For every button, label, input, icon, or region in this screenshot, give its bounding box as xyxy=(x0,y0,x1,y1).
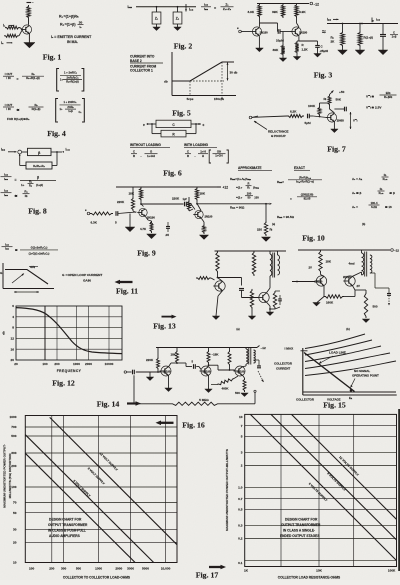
svg-text:500: 500 xyxy=(235,391,240,395)
svg-text:39K: 39K xyxy=(273,48,279,52)
transistor Q2 2N190 Fig.3 xyxy=(292,27,301,36)
svg-text:I MAX: I MAX xyxy=(285,347,295,351)
Fig.3 input terminal xyxy=(239,30,242,33)
Fig.5 response curve xyxy=(172,62,234,81)
svg-text:Fig. 14: Fig. 14 xyxy=(97,400,120,409)
resistor 160K Fig.13b xyxy=(324,295,344,298)
transistor Q 2N68 Fig.7 xyxy=(327,113,336,122)
wire Fig.13a Q2 collector xyxy=(267,288,271,293)
svg-text:IN CLASS A SINGLE-: IN CLASS A SINGLE- xyxy=(283,529,315,533)
Fig.7 VRL arrow xyxy=(350,112,352,129)
wire Fig.9 interstage xyxy=(141,203,184,205)
ground Fig.14 Q2 xyxy=(205,389,212,393)
Fig.15 characteristic curve 2 xyxy=(305,340,372,355)
Fig.15 x axis xyxy=(303,394,397,396)
Fig.3 supply terminal -12 xyxy=(310,2,313,5)
Fig.15 characteristic curve 1 xyxy=(305,334,365,349)
capacitor coupling Fig.13a xyxy=(239,288,244,290)
svg-text:500: 500 xyxy=(11,434,16,438)
ground Fig.3 Q1 xyxy=(256,48,264,52)
resistor 3.9K (2) Fig.3 xyxy=(295,4,298,19)
svg-text:c: c xyxy=(203,123,205,127)
transistor Q2 Fig.13a xyxy=(259,292,269,302)
svg-text:160K: 160K xyxy=(326,301,334,305)
ground Fig.3 39K xyxy=(282,56,284,58)
capacitor input Fig.14 xyxy=(127,371,132,373)
wire Fig.13b Q1 emitter xyxy=(323,286,325,297)
resistor 220K (2) Fig.9 xyxy=(188,197,190,200)
svg-text:+12: +12 xyxy=(223,186,229,190)
ground Fig.9 emitter1 xyxy=(147,234,157,239)
Fig.17 diagonal 6 volt xyxy=(250,414,396,560)
svg-text:30: 30 xyxy=(79,20,83,24)
svg-text:1.2K: 1.2K xyxy=(302,48,309,52)
wire Fig.3 coupling xyxy=(260,22,278,24)
svg-text:18K: 18K xyxy=(200,192,206,196)
transformer Fig.13a xyxy=(270,254,272,276)
wire Fig.3 Q2 collector xyxy=(296,18,298,23)
Fig.15 characteristic curve 5 xyxy=(305,361,396,376)
capacitor input Fig.9 xyxy=(115,211,117,216)
svg-text:5μfd: 5μfd xyxy=(305,121,311,125)
svg-text:H: H xyxy=(202,154,204,158)
Fig.5 db level dashed xyxy=(172,80,224,82)
svg-text:50K: 50K xyxy=(336,98,342,102)
transistor Q1 2N190 Fig.3 xyxy=(252,27,261,36)
svg-text:2000: 2000 xyxy=(85,362,92,366)
svg-text:Fig. 10: Fig. 10 xyxy=(302,234,325,243)
svg-text:Iₘₙ: Iₘₙ xyxy=(1,147,6,151)
svg-text:Fig. 1: Fig. 1 xyxy=(43,53,62,62)
svg-text:DESIGN CHART FOR: DESIGN CHART FOR xyxy=(285,518,318,522)
Fig.6 block R xyxy=(161,130,186,137)
svg-text:β: β xyxy=(37,176,39,180)
wire Fig.1 emitter xyxy=(28,34,30,43)
Fig.11 freq arrow xyxy=(14,291,39,293)
wire Fig.9 supply rail xyxy=(116,186,217,188)
svg-text:≪ β: ≪ β xyxy=(389,191,395,195)
svg-text:Rₘₙ = 90Ω: Rₘₙ = 90Ω xyxy=(230,206,245,210)
svg-text:GAIN: GAIN xyxy=(83,278,92,282)
svg-text:(R+Rₗ)hₘₚ: (R+Rₗ)hₘₚ xyxy=(299,176,312,180)
wire Fig.2 top rail xyxy=(136,6,196,8)
svg-text:Fig. 16: Fig. 16 xyxy=(182,421,205,430)
svg-text:92.05: 92.05 xyxy=(304,197,311,201)
wire Fig.1 base join xyxy=(20,28,22,30)
resistor bias1 Fig.13a xyxy=(216,251,219,273)
svg-text:2N190: 2N190 xyxy=(237,370,245,374)
svg-text:2N190: 2N190 xyxy=(163,370,171,374)
svg-text:IN CLASS B PUSH-PULL: IN CLASS B PUSH-PULL xyxy=(48,529,86,533)
svg-text:300: 300 xyxy=(11,451,16,455)
svg-text:(b): (b) xyxy=(362,222,365,226)
svg-text:R: R xyxy=(248,182,250,186)
resistor 4.7K Fig.9 xyxy=(150,221,153,233)
svg-text:10,000: 10,000 xyxy=(161,566,171,570)
svg-text:1 + 2πRC₁: 1 + 2πRC₁ xyxy=(64,71,78,75)
svg-text:Rₘₙ=: Rₘₙ= xyxy=(277,180,284,184)
svg-text:6.3K: 6.3K xyxy=(91,221,98,225)
svg-text:MAXIMUM UNDISTORTED POWER OUTP: MAXIMUM UNDISTORTED POWER OUTPUT- xyxy=(3,444,7,508)
wire Fig.3 eq top xyxy=(327,23,398,25)
svg-text:+50: +50 xyxy=(339,90,345,94)
capacitor 10ufd Fig.3 xyxy=(277,29,279,34)
wire Fig.7 output xyxy=(334,108,344,110)
wire Fig.14 supply rail xyxy=(156,347,257,349)
svg-text:(150)(130): (150)(130) xyxy=(301,193,314,197)
resistor 500 Fig.14 xyxy=(243,375,245,378)
wire Fig.14 base1 xyxy=(136,371,161,373)
ground Fig.7 xyxy=(331,129,338,133)
svg-text:G(1+2πR₂C₂): G(1+2πR₂C₂) xyxy=(31,245,48,249)
svg-text:100·4: 100·4 xyxy=(371,201,378,205)
ground Fig.14 Q1 xyxy=(165,388,172,392)
wire Fig.9 Q1 emitter xyxy=(145,216,148,220)
wire Fig.1 collector xyxy=(28,19,30,25)
svg-text:COLLECTOR TO COLLECTOR LOAD-OH: COLLECTOR TO COLLECTOR LOAD-OHMS xyxy=(63,575,131,579)
svg-text:db: db xyxy=(164,79,168,83)
node Fig.3 eq a xyxy=(342,23,344,25)
transistor Q2 2N190 Fig.13b xyxy=(345,276,355,286)
svg-text:1 + 2πRC₁: 1 + 2πRC₁ xyxy=(63,100,77,104)
svg-text:500: 500 xyxy=(76,566,81,570)
svg-text:MILLIWATTS (5%) DISTORTION: MILLIWATTS (5%) DISTORTION xyxy=(8,454,12,499)
Fig.11 pointer arrow xyxy=(120,281,133,283)
svg-text:e: e xyxy=(143,123,145,127)
wire Fig.13b supply rail xyxy=(298,249,390,251)
svg-text:1+β: 1+β xyxy=(68,109,73,113)
svg-text:Iₘₙ: Iₘₙ xyxy=(327,18,332,22)
Fig.2 impedance Z1 xyxy=(156,7,158,12)
svg-text:Aₑ ≅ β: Aₑ ≅ β xyxy=(352,191,362,195)
Fig.7 pickup terminal xyxy=(249,116,252,119)
node Fig.3 eq b xyxy=(361,23,363,25)
ground Fig.13a emitter xyxy=(269,309,271,312)
svg-text:–: – xyxy=(32,1,34,5)
svg-text:FOR R(1+β)≫Rₐ: FOR R(1+β)≫Rₐ xyxy=(7,117,30,121)
Fig.16 diagonal 6 volt xyxy=(25,453,135,562)
svg-text:220: 220 xyxy=(257,228,262,232)
Fig.16 chart frame and grid xyxy=(25,416,177,563)
svg-text:1+H: 1+H xyxy=(200,150,206,154)
resistor 500 Fig.13b xyxy=(365,290,367,292)
svg-text:2N190: 2N190 xyxy=(299,31,308,35)
svg-text:3000: 3000 xyxy=(127,566,134,570)
wire Fig.9 base1 xyxy=(118,212,137,214)
svg-text:=: = xyxy=(290,197,292,201)
svg-text:Iₒₓₜ: Iₒₓₜ xyxy=(376,18,380,22)
Fig.2 impedance Z2 xyxy=(177,7,179,12)
svg-text:1+: 1+ xyxy=(21,183,25,187)
ground Fig.13a base2 xyxy=(251,309,253,316)
resistor 220 RL Fig.9 xyxy=(264,221,267,236)
svg-text:MAXIMUM UNDISTORTED POWER O: MAXIMUM UNDISTORTED POWER OUTPUT-MILLIWA… xyxy=(225,449,229,531)
Fig.15 characteristic curve 4 xyxy=(305,353,390,369)
wire Fig.13a supply rail xyxy=(215,250,287,252)
svg-text:1000: 1000 xyxy=(95,566,102,570)
svg-text:220K: 220K xyxy=(117,200,125,204)
wire Fig.14 Q1 emitter xyxy=(168,375,170,388)
Fig.16 diagonal 12 volt xyxy=(50,417,177,544)
ground Fig.13b 500 xyxy=(362,319,369,323)
transistor Q1 2N190 Fig.9 xyxy=(139,208,147,216)
svg-text:R+βRₗ: R+βRₗ xyxy=(384,95,393,99)
ground Fig.9 load xyxy=(261,237,270,242)
wire Fig.13b Q1 collector xyxy=(320,273,322,275)
Fig.1 input resistor r1 xyxy=(5,26,20,29)
transistor Q1 2N190 Fig.13b xyxy=(316,276,326,286)
svg-text:Fig. 2: Fig. 2 xyxy=(174,42,193,51)
svg-text:EXACT: EXACT xyxy=(294,166,305,170)
ground Fig.3eq C xyxy=(382,36,384,50)
wire Fig.9 output xyxy=(197,203,269,205)
svg-text:OUTPUT TRANSFORMER: OUTPUT TRANSFORMER xyxy=(281,523,321,527)
svg-text:0.7: 0.7 xyxy=(238,497,243,501)
svg-text:3: 3 xyxy=(241,451,243,455)
resistor 18K (2) Fig.9 xyxy=(195,187,198,201)
svg-text:Z₁+Z₂: Z₁+Z₂ xyxy=(223,7,232,11)
Fig.9 input terminal xyxy=(87,212,90,215)
wire Fig.9 Q1 collector xyxy=(140,201,142,204)
Fig.8 block beta xyxy=(28,148,52,155)
wire Fig.13b input xyxy=(292,281,315,283)
svg-text:1μf: 1μf xyxy=(183,197,187,201)
transistor Q1 2N190 Fig.14 xyxy=(161,366,171,376)
svg-text:2N68: 2N68 xyxy=(337,119,344,123)
svg-text:FREQUENCY: FREQUENCY xyxy=(57,369,82,373)
svg-text:4: 4 xyxy=(12,315,14,319)
svg-text:100: 100 xyxy=(247,192,252,196)
svg-text:150cps: 150cps xyxy=(214,97,225,101)
svg-text:200: 200 xyxy=(49,566,54,570)
transformer 4md Fig.13b xyxy=(362,253,364,275)
svg-text:R₂ =(1+β): R₂ =(1+β) xyxy=(60,23,76,27)
wire Fig.3 output node xyxy=(299,40,318,42)
svg-text:GRₗ: GRₗ xyxy=(30,265,36,269)
resistor emitter2 Fig.9 xyxy=(203,224,206,234)
Fig.7 supply +50 xyxy=(330,91,334,95)
svg-text:2: 2 xyxy=(241,464,243,468)
svg-text:50: 50 xyxy=(13,511,17,515)
wire Fig.6 left branch xyxy=(151,124,153,134)
Fig.13b supply terminal xyxy=(391,249,394,252)
svg-text:8: 8 xyxy=(12,326,14,330)
wire Fig.14 Q1 collector xyxy=(169,363,172,367)
svg-text:2N190: 2N190 xyxy=(147,215,155,219)
svg-text:200: 200 xyxy=(54,362,59,366)
svg-text:10: 10 xyxy=(13,561,17,565)
svg-text:–12: –12 xyxy=(314,2,320,6)
Fig.15 load line xyxy=(304,353,355,392)
ground Fig.9 bias xyxy=(129,214,131,228)
svg-text:hₒₚ+Rₗ+R(1–α): hₒₚ+Rₗ+R(1–α) xyxy=(296,180,314,184)
svg-text:2N190: 2N190 xyxy=(343,275,351,279)
svg-text:AUDIO AMPLIFIERS: AUDIO AMPLIFIERS xyxy=(49,534,81,538)
svg-text:2V: 2V xyxy=(309,266,313,270)
svg-text:2N190: 2N190 xyxy=(203,370,211,374)
svg-text:(b): (b) xyxy=(346,327,350,331)
transistor Q3 2N190 Fig.14 xyxy=(235,366,245,376)
resistor 220K (1) Fig.9 xyxy=(132,187,134,197)
svg-text:100: 100 xyxy=(11,485,16,489)
transistor Q1 Fig.1 xyxy=(22,25,31,34)
wire Fig.9 base2 xyxy=(187,203,191,205)
wire Fig.7 base xyxy=(309,115,313,117)
wire Fig.3 Q2 base xyxy=(280,31,291,33)
resistor input Fig.13a xyxy=(196,277,211,280)
svg-text:C: C xyxy=(393,31,395,35)
svg-text:Fig. 17: Fig. 17 xyxy=(196,571,219,580)
transformer output Fig.14 xyxy=(245,348,247,350)
svg-text:Rₐ+R(1+β): Rₐ+R(1+β) xyxy=(66,79,79,83)
svg-text:.25μfd: .25μfd xyxy=(320,49,329,53)
resistor 460K Fig.14 xyxy=(217,379,234,385)
resistor 100K Fig.7 xyxy=(318,106,321,116)
wire Fig.13a Q2 emitter xyxy=(267,302,271,306)
svg-text:CURRENT: CURRENT xyxy=(276,366,290,370)
resistor base2 Fig.13a xyxy=(251,288,253,290)
svg-text:COLLECTOR: COLLECTOR xyxy=(296,398,315,402)
svg-text:100K: 100K xyxy=(388,569,396,573)
svg-text:)hₘₚ: )hₘₚ xyxy=(253,186,260,190)
resistor bias3 Fig.14 xyxy=(229,348,231,351)
Fig.12 gridlines xyxy=(16,316,122,318)
svg-text:NO SIGNAL: NO SIGNAL xyxy=(354,369,370,373)
svg-text:Fig. 8: Fig. 8 xyxy=(28,207,47,216)
resistor R 1.2K Fig.3 xyxy=(295,41,298,54)
svg-text:Fig. 9: Fig. 9 xyxy=(137,249,156,258)
svg-text:WITHOUT LOADING: WITHOUT LOADING xyxy=(130,143,161,147)
svg-text:20: 20 xyxy=(13,540,17,544)
svg-text:R₁ =(1+β)Rₖ: R₁ =(1+β)Rₖ xyxy=(59,15,79,19)
svg-text:=: = xyxy=(17,77,19,81)
svg-text:R(1+β): R(1+β) xyxy=(32,107,41,111)
wire Fig.13a Q1 emitter xyxy=(218,291,223,296)
svg-text:)30: )30 xyxy=(255,196,260,200)
transistor Q1 Fig.13a xyxy=(215,281,225,291)
svg-text:0.1: 0.1 xyxy=(238,561,243,565)
svg-text:R(1+β): R(1+β) xyxy=(364,36,373,40)
svg-text:5cps: 5cps xyxy=(187,97,194,101)
svg-text:IN MA.: IN MA. xyxy=(67,40,78,44)
capacitor coupling Fig.9 xyxy=(184,202,186,207)
svg-text:3.9K: 3.9K xyxy=(299,10,306,14)
resistor Rg 2K Fig.3eq xyxy=(342,24,344,32)
Fig.3 eq label Iout xyxy=(371,18,373,23)
scan edge right strip xyxy=(398,409,400,571)
Fig.12 response curve xyxy=(16,308,122,354)
wire Fig.9 load xyxy=(265,204,267,221)
svg-text:I IN: I IN xyxy=(6,107,10,111)
wire Fig.7 bias top xyxy=(319,103,321,106)
svg-text:Fig. 6: Fig. 6 xyxy=(163,169,182,178)
ground Fig.1 xyxy=(24,43,35,48)
svg-text:(a): (a) xyxy=(272,222,275,226)
svg-text:500: 500 xyxy=(373,305,378,309)
transistor Q2 2N190 Fig.14 xyxy=(201,366,211,376)
capacitor 5ufd Fig.7 xyxy=(307,114,309,119)
Fig.1 supply terminal minus xyxy=(27,2,32,4)
node Fig.2 a xyxy=(156,6,158,8)
svg-text:I IN: I IN xyxy=(6,76,10,80)
svg-text:1+β: 1+β xyxy=(392,35,397,39)
svg-text:18K: 18K xyxy=(326,260,332,264)
Fig.16 diagonal 9 volt xyxy=(25,435,153,563)
wire Fig.3 Q2 emitter xyxy=(298,36,300,41)
svg-text:Fig. 5: Fig. 5 xyxy=(172,109,191,118)
ground Fig.14 500 xyxy=(241,393,248,397)
svg-text:220K: 220K xyxy=(172,197,180,201)
svg-text:Fig. 4: Fig. 4 xyxy=(47,129,66,138)
svg-text:50: 50 xyxy=(248,196,251,200)
svg-text:1+: 1+ xyxy=(60,78,63,82)
wire Fig.13a Q2 base xyxy=(241,290,243,297)
ground Fig.3 C xyxy=(317,47,319,53)
svg-text:2N190: 2N190 xyxy=(205,215,213,219)
svg-text:≅: ≅ xyxy=(15,248,18,252)
svg-text:(1+G)(1+2πR₂C₂): (1+G)(1+2πR₂C₂) xyxy=(29,252,50,256)
svg-text:3.9K: 3.9K xyxy=(248,10,255,14)
Fig.17 chart frame and grid xyxy=(245,414,397,566)
svg-text:0.3: 0.3 xyxy=(238,524,243,528)
transistor Q2 2N190 Fig.9 xyxy=(195,210,203,218)
svg-text:1.0: 1.0 xyxy=(238,486,243,490)
svg-text:18K: 18K xyxy=(129,192,135,196)
svg-text:APPROXIMATE: APPROXIMATE xyxy=(238,166,262,170)
capacitor C .25ufd Fig.3 xyxy=(315,45,320,47)
svg-text:Aₑ =: Aₑ = xyxy=(352,205,358,209)
svg-text:Aₑ = Aₖ: Aₑ = Aₖ xyxy=(352,177,363,181)
Fig.4 formula row1 bracket xyxy=(57,69,59,92)
wire Fig.14 stage12 xyxy=(177,362,186,364)
wire Fig.14 Q2 collector xyxy=(208,364,210,366)
resistor mid Fig.13a xyxy=(252,251,255,276)
svg-text:Iₘₙ: Iₘₙ xyxy=(128,5,133,9)
wire Fig.3 Q1 collector xyxy=(259,18,261,23)
Fig.12 plot frame xyxy=(16,306,122,360)
ground Fig.2 Z2 xyxy=(174,27,181,31)
svg-text:ENDED OUTPUT STAGES: ENDED OUTPUT STAGES xyxy=(280,534,320,538)
wire Fig.3 Q1 emitter xyxy=(258,36,260,48)
ground Fig.3 R xyxy=(296,54,298,57)
wire Fig.14 base2 xyxy=(196,366,199,368)
Fig.11 y axis xyxy=(2,263,4,289)
capacitor output Fig.13b xyxy=(370,272,375,274)
wire Fig.13a Q1 collector xyxy=(217,273,219,278)
svg-text:R₁/R₁+R₂: R₁/R₁+R₂ xyxy=(33,164,45,168)
resistor 18K Fig.13b xyxy=(319,250,322,273)
svg-text:0: 0 xyxy=(12,304,14,308)
svg-text:Rₐ+R(1+β): Rₐ+R(1+β) xyxy=(26,76,40,80)
svg-text:1000: 1000 xyxy=(73,362,80,366)
ground Fig.14 input xyxy=(149,372,151,377)
Fig.9 supply +12 xyxy=(217,186,221,188)
wire Fig.14 Q2 emitter xyxy=(208,375,210,389)
svg-text:700: 700 xyxy=(11,425,16,429)
resistor collector2 Fig.14 xyxy=(208,348,210,351)
svg-text:2πRₐ: 2πRₐ xyxy=(67,105,73,109)
wire Fig.7 collector xyxy=(329,106,331,109)
svg-text:10K: 10K xyxy=(316,569,322,573)
svg-text:39K: 39K xyxy=(272,10,278,14)
Fig.16 caption xyxy=(161,422,174,424)
svg-text:30 db: 30 db xyxy=(230,71,238,75)
svg-text:0.5: 0.5 xyxy=(238,507,243,511)
svg-text:220K: 220K xyxy=(146,358,154,362)
resistor 5MEG feedback Fig.14 xyxy=(133,375,135,404)
svg-text:Rₘₙ = 96.5Ω: Rₘₙ = 96.5Ω xyxy=(277,215,295,219)
svg-text:G = OPEN LOOP CURRENT: G = OPEN LOOP CURRENT xyxy=(62,273,102,277)
